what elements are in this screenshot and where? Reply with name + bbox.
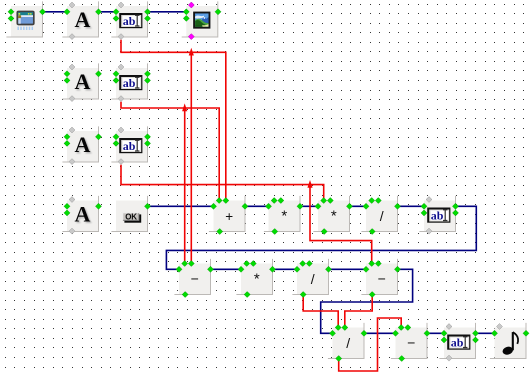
port U8 right-out	[395, 266, 401, 272]
port T3 bottom (gray)	[118, 159, 124, 165]
port U2 right-out	[297, 203, 303, 209]
port U5 bottom-out	[182, 292, 188, 298]
port U7 left-in	[294, 266, 300, 272]
port A2 top (gray)	[69, 64, 75, 70]
port T2 right-out 2	[145, 77, 151, 83]
port A4 top (gray)	[69, 197, 75, 203]
wire U1 to U2 (navy)	[245, 205, 271, 207]
port A2 right-out	[96, 71, 102, 77]
label component A3	[62, 126, 98, 162]
port T5 left-in 1	[421, 203, 427, 209]
svg-text:/: /	[346, 335, 350, 351]
port T6 top (gray)	[446, 324, 452, 330]
wire U6 to U7 (navy)	[272, 268, 299, 270]
wire branch junction to U5 input1 (red)	[184, 108, 186, 264]
svg-text:*: *	[331, 207, 337, 224]
port U6 top-in 2	[250, 261, 256, 267]
port A4 left-in 1	[64, 203, 70, 209]
math operator + (add U1)	[209, 196, 245, 232]
svg-text:A: A	[75, 202, 91, 227]
wire U10 to T6 (navy)	[427, 332, 446, 334]
port U9 bottom-out	[336, 356, 342, 362]
svg-text:ab: ab	[123, 76, 136, 90]
port T2 left-in 2	[113, 77, 119, 83]
port T6 left-in 2	[441, 337, 447, 343]
port T6 left-in 1	[441, 330, 447, 336]
port T1 left-in 1	[113, 9, 119, 15]
math operator - (subtract U8)	[361, 259, 397, 295]
port T5 right-out 2	[453, 210, 459, 216]
port U2 top-in 2	[278, 198, 284, 204]
svg-text:ab: ab	[451, 336, 464, 350]
wire U2 to U3 (navy)	[300, 205, 320, 207]
port U10 right-out	[424, 330, 430, 336]
port U7 right-out	[326, 266, 332, 272]
port U3 bottom-out	[321, 229, 327, 235]
svg-text:ab: ab	[123, 139, 136, 153]
svg-text:A: A	[75, 132, 91, 157]
port T2 left-in 1	[113, 71, 119, 77]
port U1 left-in	[211, 203, 217, 209]
port Form1 right-out	[40, 9, 46, 15]
svg-text:A: A	[75, 7, 91, 32]
port A3 left-in 1	[64, 134, 70, 140]
svg-text:ab: ab	[431, 209, 444, 223]
port P1 top (magenta)	[188, 2, 194, 8]
math operator * (multiply U2)	[264, 196, 300, 232]
port B1 right-out	[145, 203, 151, 209]
port U3 left-in	[315, 203, 321, 209]
port U9 right-out	[361, 330, 367, 336]
port U2 bottom-out	[272, 229, 278, 235]
form component Form1 (window)	[6, 1, 42, 37]
wire U7 output to U9 input1 (red)	[303, 295, 338, 328]
port N1 right-out	[523, 330, 529, 336]
port P1 left-in 1	[183, 9, 189, 15]
wire branch junction to U5 input2 (red)	[190, 52, 192, 263]
port T6 bottom (gray)	[446, 355, 452, 361]
wire B1 to U1 (navy)	[148, 205, 216, 207]
port P1 right-out	[215, 9, 221, 15]
port T5 top (gray)	[426, 197, 432, 203]
wire U8 to U9 loop (navy)	[321, 269, 413, 333]
port U4 left-in	[363, 203, 369, 209]
port U10 left-in	[393, 330, 399, 336]
label component A1	[62, 1, 98, 37]
port U7 top-in 1	[300, 261, 306, 267]
port T2 top (gray)	[118, 64, 124, 70]
port U8 bottom-out	[369, 292, 375, 298]
arrowhead junction B (red, up)	[182, 103, 187, 111]
port U1 bottom-out	[217, 229, 223, 235]
math operator - (subtract U10)	[391, 323, 427, 359]
wire T5 to U5 loop (navy)	[166, 206, 476, 269]
math operator * (multiply U3)	[313, 196, 349, 232]
wire T1 to P1 (navy)	[147, 11, 188, 13]
port U9 top-in 1	[335, 325, 341, 331]
port U3 top-in 1	[321, 198, 327, 204]
port A1 right-out	[96, 9, 102, 15]
port T2 bottom (gray)	[118, 96, 124, 102]
port T6 right-out 2	[473, 337, 479, 343]
port T3 left-in 1	[113, 134, 119, 140]
port N1 top (gray)	[497, 324, 503, 330]
port U3 top-in 2	[327, 198, 333, 204]
port U5 top-in 1	[182, 261, 188, 267]
port A2 bottom (gray)	[69, 96, 75, 102]
wire Form1 to A1 (navy)	[41, 11, 69, 13]
math operator / (divide U7)	[292, 259, 328, 295]
svg-text:OK: OK	[125, 213, 137, 222]
wire U7 to U8 (navy)	[328, 268, 368, 270]
port T5 bottom (gray)	[426, 228, 432, 234]
port U8 top-in 1	[369, 261, 375, 267]
textbox component T1	[111, 1, 147, 37]
port U4 bottom-out	[369, 229, 375, 235]
port U2 top-in 1	[271, 198, 277, 204]
port Form1 left-in 2	[8, 15, 14, 21]
arrowhead junction A (red, up)	[189, 48, 194, 56]
svg-text:−: −	[407, 335, 415, 351]
wire U5 to U6 (navy)	[210, 268, 243, 270]
svg-text:−: −	[378, 271, 386, 287]
math operator / (divide U4)	[361, 196, 397, 232]
svg-text:/: /	[380, 208, 384, 224]
port U4 top-in 2	[375, 198, 381, 204]
wire U8 output to U9 input2 (red)	[345, 295, 372, 328]
port Form1 left-in 1	[8, 9, 14, 15]
port U9 top-in 2	[342, 325, 348, 331]
port U1 top-in 1	[216, 198, 222, 204]
port U5 right-out	[208, 266, 214, 272]
port U1 top-in 2	[223, 198, 229, 204]
port T1 left-in 2	[113, 15, 119, 21]
textbox component T6	[439, 323, 475, 359]
math operator - (subtract U5)	[174, 259, 210, 295]
wire T2 to U1 input (red)	[121, 102, 219, 201]
math operator / (divide U9)	[328, 323, 364, 359]
port U5 top-in 2	[188, 261, 194, 267]
port P1 bottom (magenta)	[188, 34, 194, 40]
wire branch junction to U8 input (red)	[310, 185, 372, 264]
wire T1 to U1 input (red)	[121, 40, 226, 201]
port N1 left-in	[492, 330, 498, 336]
port U7 bottom-out	[300, 292, 306, 298]
svg-text:*: *	[254, 270, 260, 287]
port A3 right-out	[96, 134, 102, 140]
svg-text:−: −	[191, 271, 199, 287]
port A1 bottom (gray)	[69, 34, 75, 40]
port A4 bottom (gray)	[69, 228, 75, 234]
textbox component T5	[419, 196, 455, 232]
port T1 top (gray)	[118, 2, 124, 8]
wire T3 to U3 input (red)	[121, 165, 324, 201]
sound component N1 (music note)	[490, 323, 526, 359]
wire A1 to T1 (navy)	[98, 11, 118, 13]
port U4 top-in 1	[369, 198, 375, 204]
svg-text:+: +	[225, 209, 233, 224]
port T1 right-out 1	[145, 9, 151, 15]
port U3 right-out	[347, 203, 353, 209]
port T3 top (gray)	[118, 127, 124, 133]
port U10 bottom-out	[399, 356, 405, 362]
port U5 left-in	[176, 266, 182, 272]
port T1 right-out 2	[145, 15, 151, 21]
port U6 left-in	[238, 266, 244, 272]
port T2 right-out 1	[145, 71, 151, 77]
port U6 bottom-out	[244, 292, 250, 298]
port T5 left-in 2	[421, 210, 427, 216]
port U8 top-in 2	[375, 261, 381, 267]
port U9 left-in	[330, 330, 336, 336]
port A1 top (gray)	[69, 2, 75, 8]
port A3 left-in 2	[64, 140, 70, 146]
port T5 right-out 1	[453, 203, 459, 209]
port T3 right-out 2	[145, 140, 151, 146]
label component A4	[62, 196, 98, 232]
textbox component T2	[111, 63, 147, 99]
arrowhead junction C (red, up)	[307, 180, 312, 188]
port U4 right-out	[395, 203, 401, 209]
port T3 right-out 1	[145, 134, 151, 140]
svg-text:ab: ab	[123, 14, 136, 28]
port A4 right-out	[96, 203, 102, 209]
svg-text:/: /	[311, 271, 315, 287]
port A2 left-in 2	[64, 77, 70, 83]
port T1 bottom (gray)	[118, 34, 124, 40]
port A3 top (gray)	[69, 127, 75, 133]
port U6 right-out	[270, 266, 276, 272]
port U1 right-out	[242, 203, 248, 209]
port U10 top-in 1	[398, 325, 404, 331]
textbox component T3	[111, 126, 147, 162]
wire U3 to U4 (navy)	[349, 205, 368, 207]
label component A2	[62, 63, 98, 99]
wire U9 to U10 (navy)	[364, 332, 398, 334]
port A3 bottom (gray)	[69, 159, 75, 165]
picture component P1	[182, 1, 218, 37]
port U10 top-in 2	[405, 325, 411, 331]
port T6 right-out 1	[473, 330, 479, 336]
port U7 top-in 2	[306, 261, 312, 267]
port A1 left-in	[64, 9, 70, 15]
port U6 top-in 1	[244, 261, 250, 267]
svg-text:A: A	[75, 69, 91, 94]
button component B1 (OK)	[111, 196, 147, 232]
port T3 left-in 2	[113, 140, 119, 146]
wire T6 to N1 (navy)	[475, 332, 496, 334]
math operator * (multiply U6)	[236, 259, 272, 295]
port P1 left-in 2	[183, 15, 189, 21]
port A2 left-in 1	[64, 71, 70, 77]
port U8 left-in	[363, 266, 369, 272]
svg-text:*: *	[281, 207, 287, 224]
wire U4 to T5 (navy)	[397, 205, 426, 207]
port A4 left-in 2	[64, 210, 70, 216]
port U2 left-in	[266, 203, 272, 209]
wire U9 output to U10 input (red)	[339, 318, 402, 371]
